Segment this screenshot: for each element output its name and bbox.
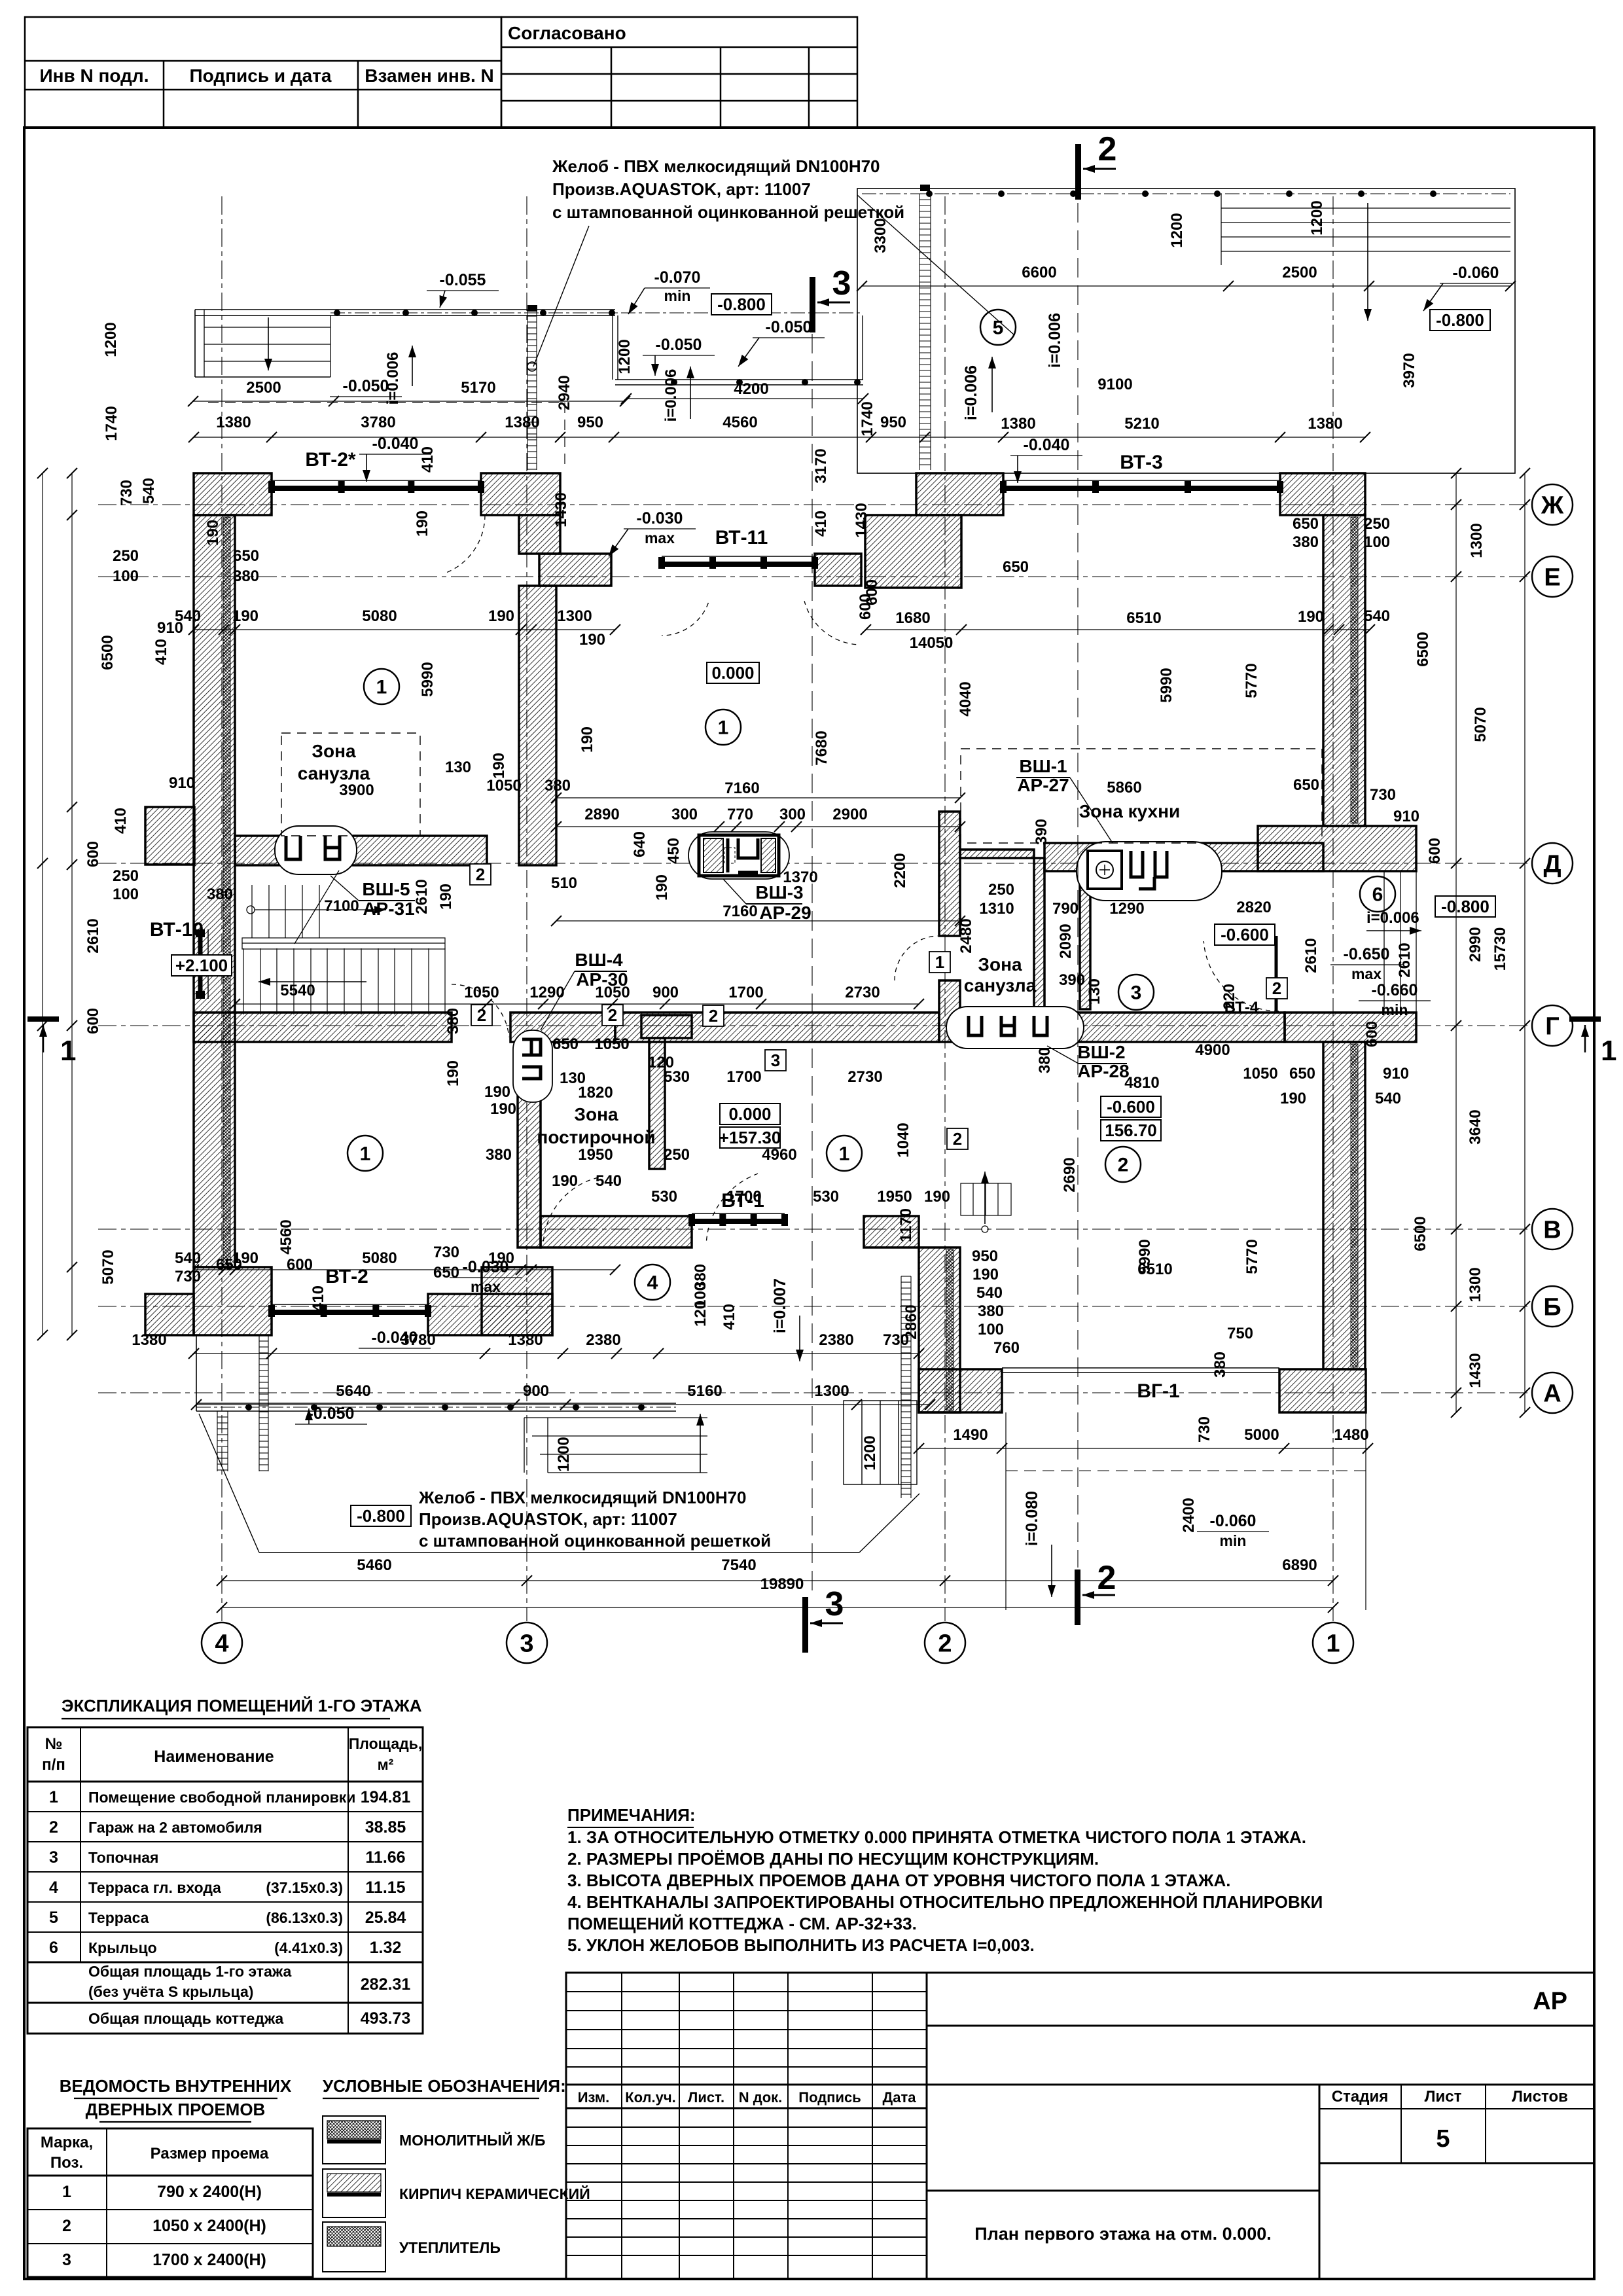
porch east edge lines (1383, 871, 1385, 1013)
svg-text:3780: 3780 (401, 1331, 435, 1349)
elevation -0.600/156.70 garage (1101, 1096, 1161, 1117)
wall Г right segment (960, 1013, 1285, 1042)
svg-text:Кол.уч.: Кол.уч. (625, 2089, 676, 2106)
laundry west wall (518, 1038, 541, 1247)
svg-text:4960: 4960 (762, 1146, 796, 1164)
svg-text:max: max (1351, 965, 1382, 982)
svg-text:1050: 1050 (464, 984, 499, 1001)
svg-text:530: 530 (651, 1188, 677, 1206)
svg-text:п/п: п/п (42, 1756, 65, 1774)
room bubble 1 mid (827, 1136, 862, 1171)
svg-text:2890: 2890 (584, 806, 619, 823)
svg-text:4560: 4560 (722, 414, 757, 431)
svg-text:2: 2 (953, 1129, 962, 1149)
svg-text:5210: 5210 (1124, 415, 1159, 433)
svg-text:Зона: Зона (978, 954, 1022, 975)
svg-text:1700: 1700 (726, 1188, 761, 1206)
svg-text:-0.040: -0.040 (1024, 436, 1070, 454)
svg-text:770: 770 (727, 806, 753, 823)
entrance steps right block (844, 1401, 917, 1484)
svg-text:ВТ-11: ВТ-11 (715, 527, 768, 548)
svg-text:790 х 2400(Н): 790 х 2400(Н) (157, 2183, 262, 2201)
dashed zone bath top-left (281, 733, 420, 836)
svg-text:1200: 1200 (555, 1437, 573, 1471)
svg-text:УТЕПЛИТЕЛЬ: УТЕПЛИТЕЛЬ (399, 2239, 501, 2256)
svg-text:1380: 1380 (132, 1331, 166, 1349)
svg-text:540: 540 (1364, 607, 1390, 625)
svg-text:2690: 2690 (1061, 1157, 1079, 1192)
bath3 west wall lower (939, 980, 960, 1042)
svg-text:1: 1 (60, 1035, 76, 1067)
svg-text:1380: 1380 (1308, 415, 1342, 433)
gutter strip bottom-left (259, 1335, 268, 1471)
svg-text:130: 130 (1086, 978, 1103, 1005)
svg-text:410: 410 (721, 1304, 738, 1330)
section mark 2 top (1075, 144, 1081, 200)
svg-text:min: min (664, 287, 691, 304)
terrace top-left steps (204, 327, 330, 361)
svg-text:6: 6 (1372, 884, 1383, 906)
svg-text:600: 600 (1363, 1021, 1381, 1047)
svg-text:1: 1 (1326, 1630, 1340, 1657)
svg-text:250: 250 (113, 867, 139, 885)
svg-text:4900: 4900 (1195, 1041, 1230, 1059)
svg-text:Помещение свободной планировки: Помещение свободной планировки (88, 1789, 355, 1806)
svg-text:194.81: 194.81 (361, 1788, 411, 1806)
svg-text:Желоб - ПВХ мелкосидящий DN100: Желоб - ПВХ мелкосидящий DN100H70 (418, 1488, 747, 1507)
svg-text:Взамен инв. N: Взамен инв. N (365, 65, 493, 86)
svg-text:7160: 7160 (724, 780, 759, 797)
svg-text:ВШ-2: ВШ-2 (1077, 1042, 1125, 1062)
room bubble 1 center (705, 709, 741, 745)
svg-text:2: 2 (1098, 130, 1117, 168)
svg-text:1050: 1050 (595, 984, 630, 1001)
svg-text:Зона кухни: Зона кухни (1079, 801, 1181, 821)
svg-text:0.000: 0.000 (711, 663, 754, 683)
garage door ВГ-1 opening (1002, 1367, 1279, 1369)
svg-text:7680: 7680 (813, 730, 830, 765)
svg-text:510: 510 (551, 874, 577, 892)
svg-text:540: 540 (175, 1249, 201, 1267)
wall Д left (bath north) (235, 836, 487, 865)
svg-text:380: 380 (1211, 1352, 1229, 1378)
svg-text:390: 390 (1059, 971, 1085, 989)
svg-text:ПРИМЕЧАНИЯ:: ПРИМЕЧАНИЯ: (567, 1805, 696, 1825)
svg-text:Г: Г (1545, 1013, 1560, 1040)
svg-text:(86.13х0.3): (86.13х0.3) (266, 1909, 343, 1926)
svg-text:190: 190 (488, 607, 514, 625)
svg-text:390: 390 (1033, 819, 1050, 845)
svg-text:Марка,: Марка, (41, 2134, 93, 2151)
svg-text:650: 650 (1293, 776, 1319, 794)
svg-text:1170: 1170 (897, 1208, 915, 1242)
svg-text:5. УКЛОН ЖЕЛОБОВ ВЫПОЛНИТЬ ИЗ: 5. УКЛОН ЖЕЛОБОВ ВЫПОЛНИТЬ ИЗ РАСЧЕТА I=… (567, 1935, 1035, 1955)
vent cluster ВШ-3 (center) (688, 832, 789, 879)
svg-text:i=0.080: i=0.080 (1023, 1491, 1041, 1546)
svg-text:-0.050: -0.050 (656, 336, 702, 354)
svg-text:1: 1 (935, 952, 944, 972)
staircase main (242, 885, 445, 1014)
svg-text:6890: 6890 (1282, 1556, 1317, 1574)
terrace top-left outline (195, 309, 615, 310)
svg-text:4: 4 (647, 1272, 658, 1294)
svg-text:КИРПИЧ КЕРАМИЧЕСКИЙ: КИРПИЧ КЕРАМИЧЕСКИЙ (399, 2185, 590, 2202)
elevation 0.000 top (707, 662, 759, 683)
svg-text:3: 3 (825, 1585, 844, 1623)
entrance terrace bottom edge / steps (524, 1418, 707, 1473)
svg-text:Желоб - ПВХ мелкосидящий DN100: Желоб - ПВХ мелкосидящий DN100H70 (552, 156, 880, 176)
svg-text:-0.030: -0.030 (637, 509, 683, 528)
svg-text:540: 540 (1375, 1090, 1401, 1107)
svg-text:380: 380 (207, 886, 233, 903)
svg-text:Лист: Лист (1425, 2088, 1462, 2106)
svg-text:1310: 1310 (979, 900, 1014, 918)
svg-text:МОНОЛИТНЫЙ Ж/Б: МОНОЛИТНЫЙ Ж/Б (399, 2131, 545, 2149)
svg-text:190: 190 (579, 631, 605, 649)
room bubble 3 (1118, 975, 1154, 1010)
svg-text:2: 2 (477, 1005, 486, 1025)
svg-text:2: 2 (1097, 1559, 1116, 1597)
svg-text:1290: 1290 (529, 984, 564, 1001)
svg-text:2940: 2940 (556, 375, 573, 410)
svg-text:5640: 5640 (336, 1382, 370, 1400)
svg-text:2: 2 (476, 865, 485, 884)
svg-text:6500: 6500 (99, 635, 116, 670)
svg-text:Терраса: Терраса (88, 1909, 149, 1926)
svg-text:5080: 5080 (362, 1249, 397, 1267)
svg-text:i=0.006: i=0.006 (962, 365, 980, 420)
svg-text:2860: 2860 (902, 1304, 920, 1339)
svg-text:-0.060: -0.060 (1453, 264, 1499, 282)
legend item brick (323, 2169, 385, 2217)
svg-text:1200: 1200 (1168, 213, 1186, 247)
svg-text:11.66: 11.66 (365, 1848, 405, 1867)
svg-text:-0.800: -0.800 (1436, 310, 1484, 330)
svg-text:4200: 4200 (734, 380, 768, 398)
room bubble 2 garage (1105, 1147, 1141, 1182)
svg-text:5770: 5770 (1243, 663, 1260, 698)
svg-text:1480: 1480 (1334, 1426, 1368, 1444)
svg-text:5: 5 (49, 1909, 58, 1927)
svg-text:250: 250 (113, 547, 139, 565)
svg-text:190: 190 (579, 726, 596, 753)
svg-text:1: 1 (839, 1143, 850, 1165)
svg-text:540: 540 (596, 1172, 622, 1190)
grid axis lines (98, 196, 1531, 1621)
svg-text:-0.800: -0.800 (1441, 897, 1489, 916)
svg-text:2610: 2610 (413, 879, 431, 914)
svg-text:600: 600 (857, 594, 874, 620)
svg-text:Ж: Ж (1541, 492, 1564, 519)
east block at axis Д (1258, 826, 1416, 871)
garage SW corner block (919, 1369, 1002, 1412)
svg-text:410: 410 (112, 808, 130, 834)
elevation -0.800 top left (711, 294, 772, 315)
section mark 2 bottom (1075, 1570, 1080, 1625)
svg-text:ВТ-2*: ВТ-2* (305, 449, 356, 471)
svg-text:i=0.006: i=0.006 (662, 369, 680, 422)
svg-text:Д: Д (1543, 850, 1561, 878)
svg-text:1300: 1300 (1467, 1267, 1484, 1302)
svg-text:2610: 2610 (1396, 942, 1414, 977)
svg-text:450: 450 (665, 838, 683, 864)
svg-text:120: 120 (692, 1300, 709, 1327)
svg-text:i=0.006: i=0.006 (1366, 909, 1419, 927)
svg-text:-0.050: -0.050 (343, 377, 389, 395)
svg-text:-0.060: -0.060 (1210, 1512, 1257, 1530)
svg-text:156.70: 156.70 (1105, 1121, 1157, 1140)
svg-text:Поз.: Поз. (50, 2154, 83, 2172)
svg-text:Согласовано: Согласовано (508, 23, 626, 43)
svg-text:Подпись и дата: Подпись и дата (190, 65, 332, 86)
svg-text:Общая площадь 1-го этажа: Общая площадь 1-го этажа (88, 1963, 291, 1980)
svg-text:5170: 5170 (461, 379, 495, 397)
svg-text:5: 5 (1436, 2125, 1450, 2153)
svg-text:4: 4 (215, 1630, 228, 1657)
vent cluster ВШ-5 (275, 826, 357, 874)
svg-text:1300: 1300 (557, 607, 592, 625)
wall Г center segment (615, 1013, 939, 1042)
roof overhang dashes NW (208, 402, 565, 403)
section mark 3 bottom (802, 1597, 808, 1653)
terrace recess inner edge (612, 315, 613, 380)
window BT-11 (658, 556, 818, 569)
svg-text:950: 950 (577, 414, 603, 431)
svg-text:санузла: санузла (298, 763, 370, 783)
svg-text:600: 600 (84, 1008, 102, 1034)
svg-text:1. ЗА ОТНОСИТЕЛЬНУЮ ОТМЕТКУ 0.: 1. ЗА ОТНОСИТЕЛЬНУЮ ОТМЕТКУ 0.000 ПРИНЯТ… (567, 1827, 1306, 1847)
svg-text:+2.100: +2.100 (175, 956, 228, 975)
room bubble 6 porch (1360, 876, 1395, 912)
svg-text:38.85: 38.85 (365, 1818, 406, 1837)
svg-text:ДВЕРНЫХ ПРОЕМОВ: ДВЕРНЫХ ПРОЕМОВ (86, 2100, 266, 2119)
svg-text:2: 2 (608, 1005, 617, 1025)
svg-text:Площадь,: Площадь, (349, 1735, 423, 1752)
svg-text:19890: 19890 (760, 1575, 804, 1593)
svg-text:2610: 2610 (84, 918, 102, 953)
svg-text:4: 4 (49, 1878, 58, 1897)
svg-text:640: 640 (631, 831, 649, 857)
svg-text:Б: Б (1543, 1293, 1561, 1321)
svg-text:1490: 1490 (953, 1426, 988, 1444)
room bubble 1 bottom-left (348, 1136, 383, 1171)
svg-text:-0.600: -0.600 (1221, 925, 1269, 944)
svg-text:6: 6 (49, 1939, 58, 1957)
svg-text:-0.800: -0.800 (357, 1506, 405, 1526)
svg-text:2: 2 (938, 1630, 952, 1657)
svg-text:3300: 3300 (872, 218, 889, 253)
elevation 0.000/+157.30 (720, 1103, 780, 1124)
NE corner block (1280, 473, 1365, 515)
svg-text:2480: 2480 (957, 918, 975, 953)
svg-text:№: № (45, 1735, 63, 1753)
svg-text:2500: 2500 (1282, 264, 1317, 281)
svg-text:650: 650 (233, 547, 259, 565)
svg-text:2500: 2500 (246, 379, 281, 397)
vent cluster ВШ-4 (laundry) (513, 1030, 552, 1102)
svg-text:2090: 2090 (1057, 924, 1075, 958)
svg-text:с штампованной оцинкованной ре: с штампованной оцинкованной решеткой (419, 1531, 771, 1551)
svg-text:15730: 15730 (1491, 927, 1509, 971)
svg-text:Наименование: Наименование (154, 1748, 274, 1766)
door arcs (444, 515, 486, 573)
svg-text:190: 190 (414, 511, 431, 537)
svg-text:190: 190 (488, 1249, 514, 1267)
svg-text:5990: 5990 (419, 662, 437, 696)
section line 3 dashed (811, 334, 813, 1594)
svg-text:250: 250 (664, 1146, 690, 1164)
room bubble 4 terrace (635, 1265, 670, 1300)
elevation -0.800 right mid (1435, 896, 1495, 917)
axis bubbles right (1532, 484, 1573, 525)
svg-text:1430: 1430 (853, 503, 870, 537)
svg-text:4040: 4040 (957, 681, 974, 716)
elevation +2.100 stairs (171, 955, 232, 976)
svg-text:380: 380 (1036, 1047, 1054, 1073)
svg-text:3. ВЫСОТА ДВЕРНЫХ ПРОЕМОВ ДАНА: 3. ВЫСОТА ДВЕРНЫХ ПРОЕМОВ ДАНА ОТ УРОВНЯ… (567, 1871, 1231, 1890)
east wall lower (garage) (1323, 1042, 1365, 1369)
terrace 5 top-right outline (857, 188, 1515, 473)
svg-text:1050 х 2400(Н): 1050 х 2400(Н) (152, 2217, 266, 2235)
north wall right pier (916, 473, 1003, 515)
svg-text:220: 220 (1221, 984, 1238, 1010)
svg-text:6500: 6500 (1414, 632, 1432, 666)
svg-text:650: 650 (1289, 1065, 1315, 1083)
svg-text:Крыльцо: Крыльцо (88, 1939, 157, 1956)
svg-text:4810: 4810 (1124, 1074, 1159, 1092)
svg-text:ВГ-1: ВГ-1 (1137, 1380, 1179, 1402)
room bubble 5 terrace (980, 310, 1016, 345)
room bubble 1 top-left (364, 669, 399, 704)
svg-text:2200: 2200 (891, 853, 909, 888)
svg-text:Подпись: Подпись (798, 2089, 861, 2106)
svg-text:5990: 5990 (1158, 668, 1175, 702)
svg-text:190: 190 (1298, 608, 1324, 626)
svg-text:190: 190 (437, 884, 455, 910)
svg-text:410: 410 (812, 511, 830, 537)
svg-text:190: 190 (552, 1172, 578, 1190)
bath3 west wall upper (939, 812, 960, 936)
section mark 1 left (27, 1016, 59, 1022)
vent cluster ВШ-1 (kitchen) (1077, 842, 1222, 901)
svg-text:190: 190 (444, 1060, 462, 1086)
svg-text:1: 1 (376, 677, 387, 698)
north low band west (539, 554, 611, 586)
svg-text:ВТ-3: ВТ-3 (1120, 452, 1163, 473)
svg-text:Стадия: Стадия (1332, 2088, 1388, 2106)
leader to bottom note (199, 1414, 259, 1552)
svg-text:100: 100 (978, 1321, 1004, 1338)
garage west wall (919, 1247, 960, 1412)
svg-text:650: 650 (433, 1264, 459, 1282)
svg-text:910: 910 (1393, 808, 1419, 825)
wall В west segment (541, 1216, 692, 1247)
svg-text:910: 910 (169, 774, 195, 792)
dimension chain lines (194, 437, 1365, 438)
svg-text:3: 3 (832, 264, 851, 302)
dashed zone kitchen (961, 749, 1322, 843)
svg-text:ВШ-1: ВШ-1 (1019, 756, 1067, 776)
bath3 east wall (1034, 858, 1044, 1013)
svg-text:i=0.006: i=0.006 (1046, 313, 1064, 368)
svg-text:ВШ-4: ВШ-4 (575, 950, 623, 970)
svg-text:1.32: 1.32 (370, 1939, 402, 1957)
svg-text:3: 3 (62, 2251, 71, 2269)
svg-text:5770: 5770 (1243, 1239, 1261, 1274)
svg-text:730: 730 (1370, 786, 1396, 804)
kitchen west wall (1080, 871, 1090, 1009)
svg-text:100: 100 (1364, 533, 1390, 551)
svg-text:1950: 1950 (877, 1188, 912, 1206)
svg-text:А: А (1543, 1380, 1561, 1407)
svg-text:600: 600 (84, 841, 102, 867)
svg-text:190: 190 (490, 753, 508, 779)
north wall NW corner block (194, 473, 272, 515)
svg-text:3170: 3170 (812, 448, 830, 483)
west wall step block (145, 807, 194, 865)
svg-text:950: 950 (880, 414, 906, 431)
svg-text:900: 900 (652, 984, 679, 1001)
svg-text:380: 380 (978, 1302, 1004, 1320)
svg-text:1290: 1290 (1109, 900, 1144, 918)
wall Г segment 2 (510, 1013, 615, 1042)
svg-text:2610: 2610 (1302, 938, 1320, 973)
svg-text:5080: 5080 (362, 607, 397, 625)
svg-text:1430: 1430 (552, 492, 570, 527)
south wall SW step extension (145, 1294, 194, 1335)
svg-text:600: 600 (287, 1256, 313, 1274)
svg-text:min: min (1382, 1001, 1408, 1018)
svg-text:300: 300 (671, 806, 698, 823)
svg-text:2400: 2400 (1180, 1498, 1198, 1532)
svg-text:5000: 5000 (1244, 1426, 1279, 1444)
svg-text:6500: 6500 (1412, 1216, 1429, 1251)
svg-text:190: 190 (490, 1100, 516, 1118)
svg-text:1380: 1380 (1001, 415, 1035, 433)
svg-text:0.000: 0.000 (728, 1104, 771, 1124)
svg-text:380: 380 (233, 567, 259, 585)
svg-text:530: 530 (664, 1068, 690, 1086)
wall Г stairs segment (194, 1013, 452, 1042)
svg-text:3780: 3780 (361, 414, 395, 431)
svg-text:2380: 2380 (819, 1331, 853, 1349)
terrace bottom-left slab edge (196, 1403, 676, 1404)
svg-text:Размер проема: Размер проема (151, 2145, 269, 2162)
vent cluster ВШ-2 (on wall Г) (946, 1007, 1084, 1049)
doors list table (27, 2128, 313, 2277)
svg-text:410: 410 (152, 639, 170, 665)
axis bubbles bottom (202, 1623, 242, 1663)
svg-text:2730: 2730 (847, 1068, 882, 1086)
svg-text:9100: 9100 (1097, 376, 1132, 393)
svg-text:1700: 1700 (728, 984, 763, 1001)
south wall left wing east part (428, 1294, 552, 1335)
svg-text:Е: Е (1544, 564, 1560, 591)
svg-text:Зона: Зона (574, 1104, 618, 1124)
svg-text:25.84: 25.84 (365, 1909, 406, 1927)
svg-text:-0.600: -0.600 (1107, 1097, 1155, 1117)
svg-text:3: 3 (520, 1630, 533, 1657)
svg-text:1740: 1740 (859, 401, 876, 436)
svg-text:4. ВЕНТКАНАЛЫ ЗАПРОЕКТИРОВАНЫ: 4. ВЕНТКАНАЛЫ ЗАПРОЕКТИРОВАНЫ ОТНОСИТЕЛЬ… (567, 1892, 1323, 1912)
laundry east wall top tee (641, 1015, 692, 1038)
svg-text:250: 250 (988, 881, 1014, 899)
window BT-3 (1000, 480, 1283, 493)
svg-text:190: 190 (924, 1188, 950, 1206)
svg-text:-0.070: -0.070 (654, 268, 701, 287)
svg-text:5990: 5990 (1136, 1239, 1154, 1274)
svg-text:190: 190 (484, 1083, 510, 1101)
